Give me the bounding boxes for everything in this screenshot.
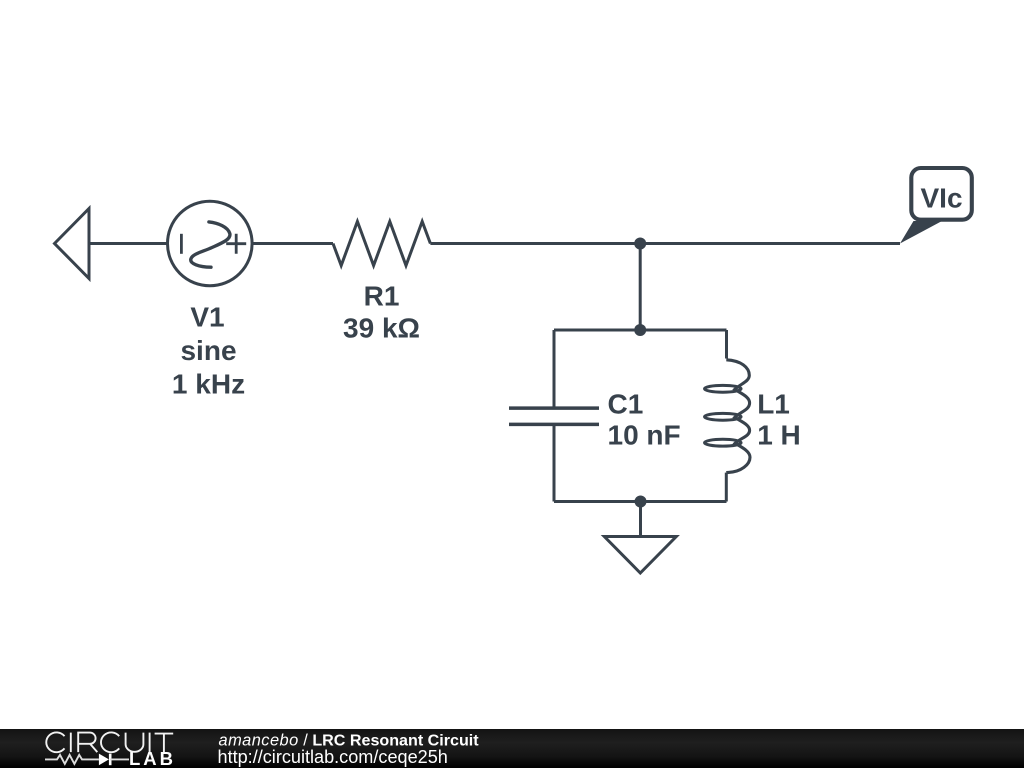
- logo diode: [99, 754, 109, 766]
- wire V1 to R1: [252, 242, 333, 245]
- logo letter R: [78, 733, 97, 753]
- flag VIc box: [911, 168, 972, 220]
- svg-text:39 kΩ: 39 kΩ: [343, 312, 420, 343]
- logo letter I: [70, 733, 72, 753]
- svg-text:V1: V1: [190, 301, 224, 332]
- inductor L1 loop ellipse 2: [705, 413, 742, 420]
- svg-text:10 nF: 10 nF: [608, 419, 681, 450]
- wire main node down to tank: [639, 244, 642, 331]
- labels: [172, 281, 801, 451]
- logo resistor squiggle: [45, 755, 99, 764]
- svg-text:1 H: 1 H: [757, 419, 801, 450]
- svg-text:1 kHz: 1 kHz: [172, 368, 245, 399]
- capacitor C1 plates: [509, 406, 599, 410]
- bottom brand bar: [0, 729, 1024, 768]
- svg-text:VIc: VIc: [920, 182, 962, 213]
- inductor L1 bottom lead: [725, 473, 728, 502]
- node dot main wire: [634, 238, 646, 250]
- svg-text:sine: sine: [180, 335, 236, 366]
- tank bottom rail wire: [554, 500, 727, 503]
- inductor L1 loop ellipse 3: [705, 439, 742, 446]
- capacitor C1 bottom lead: [553, 424, 556, 501]
- wire node to ground: [639, 502, 642, 537]
- CircuitLab logo wordmark CIRCUIT: [46, 732, 173, 752]
- tank top rail wire: [554, 329, 727, 332]
- flag VIc pointer: [900, 221, 942, 244]
- node dot tank bottom: [635, 496, 647, 508]
- svg-text:C1: C1: [608, 389, 644, 420]
- capacitor C1 top lead: [553, 330, 556, 408]
- V1 plus sign: [226, 234, 246, 254]
- inductor L1 top lead: [725, 330, 728, 359]
- logo diode cathode bar: [109, 754, 112, 766]
- logo letter C: [101, 732, 119, 752]
- logo letter I: [149, 733, 151, 753]
- svg-text:R1: R1: [364, 281, 400, 312]
- inductor L1 loop ellipse 1: [705, 385, 742, 392]
- logo wire to LAB: [110, 758, 129, 760]
- inductor L1 coil serpentine: [726, 360, 750, 473]
- wire R1 to flag VIc: [430, 242, 900, 245]
- voltage source V1 circle: [168, 201, 253, 286]
- V1 minus bar: [180, 234, 183, 254]
- svg-text:http://circuitlab.com/ceqe25h: http://circuitlab.com/ceqe25h: [218, 747, 448, 767]
- junction node dots: [634, 238, 646, 508]
- svg-text:LAB: LAB: [129, 748, 176, 768]
- resistor R1 zigzag: [333, 222, 430, 266]
- logo letter T: [155, 734, 174, 753]
- wire terminal to V1: [89, 242, 167, 245]
- logo letter U: [126, 733, 144, 752]
- logo letter C: [46, 732, 64, 752]
- svg-text:L1: L1: [757, 389, 790, 420]
- node dot tank top: [634, 324, 646, 336]
- ground symbol: [604, 537, 676, 574]
- V1 sine squiggle: [191, 222, 230, 267]
- input terminal triangle: [55, 209, 90, 279]
